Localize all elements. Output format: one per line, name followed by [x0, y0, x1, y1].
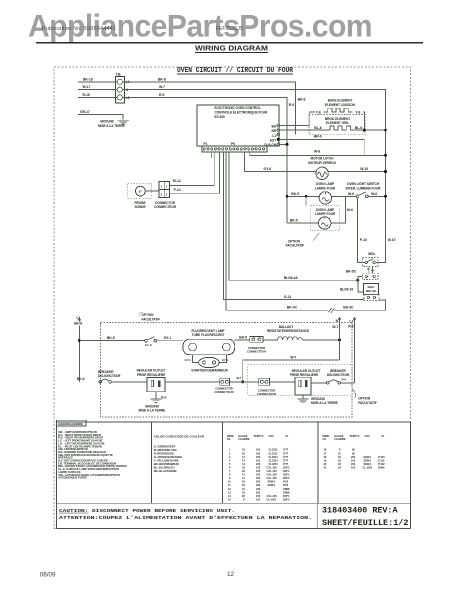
wire broil to bus: [350, 129, 385, 131]
wire switch to fluorescent lamp: [157, 340, 183, 342]
splice break symbol in BK wire: [328, 308, 334, 312]
wire dot up to MDL lower box: [358, 277, 363, 281]
svg-text:SRML: SRML: [283, 487, 291, 491]
ballast inductor L1: [278, 337, 303, 340]
svg-text:105: 105: [256, 458, 261, 462]
oven lamp DS1: [319, 192, 331, 204]
svg-text:LAMPE FOUR: LAMPE FOUR: [315, 212, 336, 216]
legend title box: [56, 420, 86, 426]
wire L1 tap down: [78, 326, 80, 382]
label FLUORESCENT LAMP / TUBE FLUORESCENT: [191, 329, 225, 337]
wire P-14 strip to probe connector: [170, 152, 220, 193]
label OVEN LAMP / LAMPE FOUR (optional): [315, 208, 336, 216]
ballast connector box: [250, 337, 263, 343]
MDL lower pins: [365, 275, 375, 277]
wire breaker to outlet: [111, 381, 147, 383]
svg-text:105: 105: [256, 455, 261, 459]
dashed box fluorescent option: [101, 323, 353, 418]
svg-text:P5: P5: [231, 142, 235, 146]
svg-text:200*1: 200*1: [283, 497, 290, 501]
svg-text:ELEMENT CUISSON: ELEMENT CUISSON: [325, 103, 356, 107]
MDL connector pins between boxes: [367, 267, 374, 274]
svg-text:GY-1: GY-1: [185, 358, 192, 362]
svg-text:S.L.S.: S.L.S.: [145, 343, 153, 347]
wire motor latch to bus W-10: [328, 171, 385, 173]
pin DLB CN: [264, 143, 279, 147]
svg-text:R-9: R-9: [159, 93, 164, 97]
svg-text:CONNECTEUR: CONNECTEUR: [214, 390, 233, 394]
svg-text:3*77: 3*77: [283, 451, 289, 455]
svg-text:FACULTATIF: FACULTATIF: [142, 317, 161, 321]
svg-text:GY-1: GY-1: [222, 358, 229, 362]
svg-text:BK-6: BK-6: [77, 377, 85, 381]
terminal N: [117, 87, 122, 92]
wire outlet to connector A: [165, 381, 220, 383]
rev box left line: [316, 503, 318, 528]
WIRING DIAGRAM underline: [195, 51, 268, 53]
svg-text:CONNECTEUR: CONNECTEUR: [154, 205, 177, 209]
leader line option lamp: [313, 233, 320, 241]
svg-text:200: 200: [256, 483, 261, 487]
svg-text:150: 150: [256, 497, 261, 501]
label REGULAR OUTLET / PRISE REGULIERE (right): [290, 369, 321, 377]
svg-text:150: 150: [256, 465, 261, 469]
svg-text:R-9: R-9: [342, 378, 347, 382]
wire connector A to connector B: [229, 381, 258, 383]
label GROUND / MISE A LA TERRE (outlet 2): [311, 397, 338, 405]
svg-text:R-9: R-9: [289, 103, 294, 107]
svg-text:SEW-1: SEW-1: [364, 462, 373, 466]
connector B box: [259, 378, 270, 385]
junction dot broil on bus: [384, 129, 387, 132]
svg-text:CXL-150: CXL-150: [267, 473, 278, 477]
junction dot BL/W-4A: [356, 279, 359, 282]
svg-text:3*77: 3*77: [283, 462, 289, 466]
svg-text:CXL-150: CXL-150: [267, 469, 278, 473]
svg-text:ELEMENT GRIL: ELEMENT GRIL: [326, 121, 349, 125]
dashed box MDL lower connector: [363, 273, 379, 279]
oven probe RT1: [136, 186, 146, 196]
svg-text:PRISE REGULIERE: PRISE REGULIERE: [290, 373, 318, 377]
svg-text:200: 200: [351, 462, 356, 466]
probe connector box: [159, 182, 169, 198]
svg-text:P-14: P-14: [174, 188, 181, 192]
svg-text:MDL BK: MDL BK: [366, 289, 377, 293]
svg-text:BK-5: BK-5: [239, 336, 247, 340]
leader line outlet option: [353, 390, 356, 399]
svg-text:PRISE REGULIERE: PRISE REGULIERE: [137, 373, 165, 377]
label MOTOR LATCH / MOTEUR VERROU: [308, 157, 336, 165]
svg-text:BL/W-4A: BL/W-4A: [284, 276, 298, 280]
svg-text:CSA: CSA: [269, 434, 275, 438]
strip pin circles: [203, 148, 264, 150]
svg-text:200: 200: [351, 455, 356, 459]
terminal L2: [117, 95, 122, 100]
wire BK-4C strip down: [226, 152, 328, 310]
svg-text:SEW-1: SEW-1: [364, 458, 373, 462]
svg-text:200*1: 200*1: [283, 469, 290, 473]
svg-text:W-10: W-10: [360, 167, 368, 171]
svg-text:150: 150: [256, 469, 261, 473]
svg-text:SEW-1: SEW-1: [364, 455, 373, 459]
svg-text:200*1: 200*1: [283, 476, 290, 480]
svg-text:TEMP°C: TEMP°C: [254, 434, 264, 438]
svg-text:MISE A LA TERRE: MISE A LA TERRE: [311, 401, 338, 405]
svg-text:W-7: W-7: [332, 325, 338, 329]
svg-text:W-7: W-7: [159, 85, 165, 89]
svg-text:BA: BA: [271, 125, 276, 129]
svg-text:GY-6: GY-6: [264, 167, 272, 171]
terminal block T.B.: [115, 77, 124, 104]
wire R-9 from L2 down left bus: [123, 97, 288, 222]
svg-text:ES 300: ES 300: [215, 115, 225, 119]
wire L2 tap down to breaker: [354, 321, 356, 383]
pin L1: [272, 133, 279, 138]
svg-text:BAKE ELEMENT: BAKE ELEMENT: [328, 99, 353, 103]
wire gauge table 2 header: [323, 434, 385, 441]
breaker CB2: [327, 380, 341, 384]
svg-text:12: 12: [227, 571, 235, 578]
svg-text:BK-8: BK-8: [158, 77, 166, 81]
junction dot L1 tap lamp row: [78, 339, 81, 342]
table divider colorcode/table1: [221, 422, 223, 503]
svg-text:CL1254: CL1254: [269, 458, 279, 462]
label GROUND / MISE A LA TERRE (outlet 1): [139, 404, 166, 412]
svg-text:200*1: 200*1: [283, 465, 290, 469]
wire outlet ground stub: [155, 392, 157, 399]
svg-text:2*112: 2*112: [378, 458, 385, 462]
optional oven lamp DS2: [319, 217, 331, 229]
svg-text:FIL: FIL: [323, 437, 327, 441]
svg-text:L1: L1: [272, 134, 276, 138]
svg-text:UL: UL: [381, 434, 385, 438]
svg-text:SONDE: SONDE: [134, 205, 145, 209]
wire BR pin to broil element: [280, 129, 330, 131]
svg-text:BK-8: BK-8: [298, 98, 306, 102]
wire bake right drop: [363, 112, 365, 130]
junction dot CN on R-9 bus: [286, 143, 289, 146]
svg-text:FACULTATIF: FACULTATIF: [358, 401, 377, 405]
table frame top line: [56, 421, 410, 423]
wire R-9 bus to oven lamp DS1: [287, 195, 319, 197]
wire BK-5 tap to surface lamp switch: [79, 340, 144, 342]
dashed box optional oven lamp: [310, 206, 340, 231]
table frame right line: [410, 422, 412, 528]
svg-text:MISE A LA TERRE: MISE A LA TERRE: [139, 409, 166, 413]
svg-text:CONTROLE ELECTRONIQUE FOUR: CONTROLE ELECTRONIQUE FOUR: [215, 110, 268, 114]
svg-text:BK-5: BK-5: [107, 336, 115, 340]
svg-text:200: 200: [256, 490, 261, 494]
svg-text:COLOR CODE/CODE DE COULEUR: COLOR CODE/CODE DE COULEUR: [154, 435, 205, 439]
svg-text:DISJONCTEUR: DISJONCTEUR: [98, 374, 121, 378]
wire P-10 switch to door latch: [357, 198, 365, 263]
label REGULAR OUTLET / PRISE REGULIERE (left): [137, 369, 166, 377]
regular outlet J1: [147, 378, 165, 392]
svg-text:Publication No: 5995544441: Publication No: 5995544441: [42, 26, 116, 32]
svg-text:06/09: 06/09: [40, 572, 56, 579]
svg-text:STARTER/ DEMARREUR: STARTER/ DEMARREUR: [191, 369, 228, 373]
pin BA: [271, 124, 279, 129]
svg-text:BK-4C: BK-4C: [287, 306, 298, 310]
pin BR: [271, 129, 279, 133]
svg-text:W-6: W-6: [348, 192, 354, 196]
wire lamp right to starter: [220, 355, 227, 363]
wire lamp to ballast connector: [235, 339, 250, 341]
wire W-17 supply to N: [78, 89, 117, 91]
svg-text:SEW-1: SEW-1: [268, 480, 277, 484]
tap L2 arrow: [353, 318, 356, 321]
caution row top line: [56, 502, 410, 504]
surface lamp switch S.L.S.: [145, 337, 157, 342]
label BAKE ELEMENT: [325, 99, 356, 107]
MDL switch S2: [365, 259, 375, 264]
svg-text:BK-18: BK-18: [83, 77, 93, 81]
oven light switch S1: [356, 192, 368, 198]
label CONNECTOR / CONNECTEUR (A): [214, 386, 233, 394]
svg-text:150: 150: [256, 494, 261, 498]
svg-text:TEMP°C: TEMP°C: [350, 434, 360, 438]
svg-text:W-7: W-7: [290, 355, 296, 359]
svg-text:BL-6: BL-6: [355, 126, 362, 130]
svg-text:150: 150: [256, 473, 261, 477]
svg-text:CAUTION: DISCONNECT POWER BEFO: CAUTION: DISCONNECT POWER BEFORE SERVICI…: [59, 508, 235, 514]
svg-text:3*77: 3*77: [283, 458, 289, 462]
wire BR-6 from AUT pin: [280, 138, 365, 140]
svg-text:W-14: W-14: [173, 179, 181, 183]
wire BL/W-19 to interlock board: [358, 280, 364, 292]
label OVEN LAMP / LAMPE FOUR: [315, 182, 336, 190]
pin AUT (filled): [270, 138, 280, 143]
svg-text:MDL: MDL: [368, 252, 375, 256]
header horizontal rule: [36, 42, 423, 44]
svg-text:BK.-BLACK/NOIR: BK.-BLACK/NOIR: [154, 469, 177, 473]
wire connector to ballast: [263, 339, 278, 341]
label OPTION FACULTATIF (lamp): [286, 239, 305, 247]
OVEN CIRCUIT title underline: [177, 73, 293, 75]
label BROIL ELEMENT: [325, 117, 350, 125]
svg-text:W-6: W-6: [347, 208, 353, 212]
svg-text:R-9: R-9: [348, 325, 353, 329]
wire BA pin to bake element: [280, 112, 315, 125]
svg-text:AUT: AUT: [270, 138, 277, 142]
junction dot bake/broil: [363, 129, 366, 132]
svg-text:CL1254: CL1254: [269, 455, 279, 459]
svg-text:150: 150: [351, 465, 356, 469]
label CONNECTOR / CONNECTEUR (ballast): [247, 346, 266, 354]
junction dot outlet feed: [241, 380, 244, 383]
svg-text:GY-1: GY-1: [164, 336, 172, 340]
table divider table1/table2: [317, 422, 319, 503]
svg-text:ATTENTION:COUPEZ L'ALIMENTATIO: ATTENTION:COUPEZ L'ALIMENTATION AVANT D'…: [59, 515, 312, 521]
svg-text:9*22: 9*22: [283, 480, 289, 484]
wire lamp to light switch: [332, 195, 357, 197]
svg-text:BR: BR: [271, 129, 276, 133]
dashed box outlet option: [248, 365, 353, 395]
svg-text:9*122: 9*122: [378, 462, 385, 466]
svg-text:150: 150: [256, 476, 261, 480]
label GROUND / MISE A LA TERRE: [98, 120, 125, 128]
svg-text:W-6: W-6: [371, 192, 377, 196]
fluorescent lamp right contact: [222, 343, 230, 351]
wire GR-17 ground lead: [78, 115, 123, 120]
fluorescent lamp left contact: [189, 343, 197, 351]
svg-text:125: 125: [256, 462, 261, 466]
svg-text:W-10: W-10: [388, 238, 396, 242]
svg-text:BK-5C: BK-5C: [346, 269, 357, 273]
svg-text:CALIBRE: CALIBRE: [334, 437, 346, 441]
svg-text:W-7: W-7: [237, 376, 242, 380]
svg-text:BK-8: BK-8: [74, 322, 82, 326]
wire N feed to outlet row: [243, 360, 340, 382]
wire BK-18 supply to L1: [78, 81, 117, 83]
svg-text:LEGEND/LEGENDE: LEGEND/LEGENDE: [58, 422, 83, 426]
starter V1: [199, 357, 220, 367]
wire N tap down: [339, 321, 341, 360]
wire gauge table 1 header: [227, 434, 289, 441]
svg-text:SHEET/FEUILLE:1/2: SHEET/FEUILLE:1/2: [322, 518, 409, 528]
terminal L1: [117, 79, 122, 84]
electronic oven control U1 box: [197, 105, 279, 146]
svg-text:BK-3C: BK-3C: [343, 306, 354, 310]
svg-text:P-10: P-10: [360, 238, 367, 242]
svg-text:Y-8: Y-8: [316, 110, 321, 114]
svg-text:105: 105: [256, 448, 261, 452]
svg-text:MISE A LA TERRE: MISE A LA TERRE: [98, 124, 125, 128]
wire gauge table 2 rows: [324, 448, 386, 470]
legend abbreviation list: [58, 430, 127, 480]
svg-text:G-2: G-2: [161, 395, 167, 399]
regular outlet J2: [295, 377, 311, 395]
svg-text:t°: t°: [139, 189, 142, 194]
junction dot motor on bus: [384, 170, 387, 173]
svg-text:T.B.: T.B.: [116, 73, 122, 77]
svg-text:TUBE FLUORESCENT: TUBE FLUORESCENT: [192, 333, 225, 337]
svg-text:FACULTATIF: FACULTATIF: [286, 244, 305, 248]
label CONNECTOR / CONNECTEUR (probe): [154, 201, 177, 209]
svg-text:L2: L2: [349, 319, 353, 323]
motor latch M1: [316, 167, 328, 179]
junction dot N tap ballast: [338, 338, 341, 341]
svg-text:2*123: 2*123: [378, 455, 385, 459]
svg-text:SEW-1: SEW-1: [268, 483, 277, 487]
svg-text:W-17: W-17: [83, 85, 91, 89]
svg-text:UL-1051: UL-1051: [267, 497, 277, 501]
wire switch to bus: [368, 195, 385, 197]
wire lamp left to starter: [193, 355, 199, 363]
svg-text:CL1251: CL1251: [269, 451, 279, 455]
connector strip P1/P5 under control: [202, 146, 267, 152]
svg-text:BALLAST: BALLAST: [279, 325, 294, 329]
svg-text:CXL-150: CXL-150: [267, 494, 278, 498]
wire ballast to N tap: [302, 339, 339, 341]
ground symbol (outlet 2): [297, 399, 308, 403]
svg-text:MOTEUR VERROU: MOTEUR VERROU: [308, 161, 336, 165]
svg-text:SRML: SRML: [283, 490, 291, 494]
svg-text:200*1: 200*1: [283, 494, 290, 498]
label OPTION FACULTATIF (fluorescent): [140, 313, 160, 322]
svg-text:CXL-150: CXL-150: [267, 465, 278, 469]
wire BL/W-4A strip down: [229, 152, 358, 280]
wire outlet 2 ground stub: [302, 395, 304, 399]
wire gauge table 1 rows: [228, 448, 291, 502]
wire breaker 2 to L2 tap: [341, 382, 355, 384]
wire optional lamp up to lamp row: [331, 196, 345, 223]
probe connector pin numbers: [161, 184, 168, 196]
svg-text:W-8: W-8: [314, 150, 320, 154]
wire W-7 neutral bus: [123, 90, 386, 263]
svg-text:RESISTATEUR/RESISTANCE: RESISTATEUR/RESISTANCE: [267, 329, 309, 333]
wire BK-8 from L1: [123, 82, 296, 135]
tap N arrow: [338, 318, 341, 321]
dashed box interlock connector: [364, 295, 379, 301]
fluorescent lamp body: [183, 339, 235, 355]
wire probe to connector: [145, 190, 159, 192]
tap L1 arrow: [78, 318, 81, 322]
color code list: [154, 445, 183, 474]
wire option tap stub: [305, 196, 307, 205]
label PROBE / SONDE: [134, 201, 145, 209]
interlock board box BN/A MDL BK: [364, 284, 379, 295]
svg-text:200M: 200M: [378, 465, 384, 469]
svg-text:DISJONCTEUR: DISJONCTEUR: [327, 373, 350, 377]
bottom frame line: [56, 527, 410, 529]
svg-text:BK-5: BK-5: [291, 192, 299, 196]
svg-text:AUTOMATIQUE PORTE: AUTOMATIQUE PORTE: [58, 476, 87, 480]
junction dot W-8 on bus: [384, 154, 387, 157]
svg-text:318403400 REV:A: 318403400 REV:A: [322, 506, 398, 516]
bake element R1: [324, 108, 353, 112]
junction dot lamp row on R-9 bus: [286, 195, 289, 198]
ground symbol (outlet 1): [150, 399, 161, 403]
svg-text:BL-6: BL-6: [314, 126, 321, 130]
junction dot option tap: [305, 195, 308, 198]
label BALLAST / RESISTANCE: [267, 325, 309, 333]
svg-text:BK-5: BK-5: [290, 218, 298, 222]
junction dot switch on bus: [384, 195, 387, 198]
svg-text:REGULAR OUTLET: REGULAR OUTLET: [137, 369, 166, 373]
table divider legend/colorcode: [150, 422, 152, 503]
svg-text:CONNECTEUR: CONNECTEUR: [247, 350, 266, 354]
svg-text:BR-6: BR-6: [314, 134, 322, 138]
svg-text:UL: UL: [285, 434, 289, 438]
svg-text:FEF352CJS: FEF352CJS: [216, 26, 244, 32]
svg-text:CSA: CSA: [365, 434, 371, 438]
svg-text:CL1251: CL1251: [269, 448, 279, 452]
wire G-14 strip down: [224, 152, 365, 300]
svg-text:WIRING DIAGRAM: WIRING DIAGRAM: [195, 46, 268, 53]
page border: [54, 67, 411, 528]
svg-text:BROIL ELEMENT: BROIL ELEMENT: [325, 117, 350, 121]
wire BR-6 drop to W-8 row: [363, 139, 365, 155]
label BREAKER / DISJONCTEUR (left): [98, 370, 121, 378]
wire connector B to outlet 2: [269, 381, 295, 383]
dashed box MDL switch: [363, 258, 379, 267]
svg-text:3*77: 3*77: [283, 455, 289, 459]
svg-text:L1: L1: [77, 316, 81, 320]
svg-text:CALIBRE: CALIBRE: [238, 437, 250, 441]
wire CN pin to R-9 bus: [280, 143, 287, 145]
svg-text:GR-17: GR-17: [80, 110, 90, 114]
ground symbol (supply): [118, 120, 130, 124]
svg-text:200*1: 200*1: [283, 473, 290, 477]
label CONNECTOR / CONNECTEUR (B): [257, 388, 276, 396]
svg-text:9*22: 9*22: [283, 483, 289, 487]
svg-text:CL1254: CL1254: [269, 462, 279, 466]
connector A box: [220, 378, 230, 385]
wire R-9 bus to optional lamp: [287, 222, 319, 224]
svg-text:G-14: G-14: [284, 295, 292, 299]
svg-text:BL/W-19: BL/W-19: [340, 287, 353, 291]
